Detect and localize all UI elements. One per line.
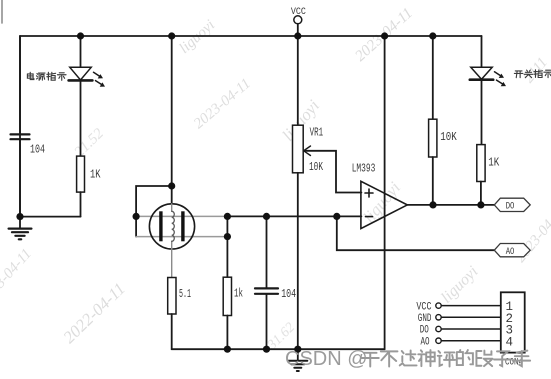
label 电源指示 [27, 72, 66, 80]
svg-text:10K: 10K [309, 161, 323, 174]
resistor R 10K pullup [429, 36, 437, 205]
svg-text:GND: GND [418, 313, 432, 325]
resistor R1 1K [77, 156, 85, 217]
capacitor C2 104 [255, 216, 278, 349]
watermark chinese 干不过神评的段子手 [362, 350, 530, 366]
resistor R 5.1 [168, 249, 176, 349]
wire sensor right link [226, 216, 228, 236]
wire sensor top-left link [136, 186, 172, 237]
svg-text:CON4: CON4 [505, 357, 523, 369]
wire sensor electrode grey top [136, 215, 227, 217]
potentiometer VR1 [293, 36, 362, 349]
label 开关指示 [514, 70, 551, 78]
svg-text:AO: AO [421, 336, 430, 348]
wire top rail [20, 35, 482, 37]
svg-text:1K: 1K [90, 169, 101, 182]
op-amp U1 LM393 [361, 181, 407, 228]
VCC terminal [294, 16, 302, 36]
svg-text:104: 104 [281, 288, 296, 301]
svg-text:AO: AO [506, 246, 515, 258]
connector pin circles [436, 303, 441, 344]
LED D2 switch indicator [470, 36, 506, 145]
svg-text:DO: DO [506, 201, 515, 213]
grey screenshot border remnant top-left [1, 0, 3, 23]
wire VCC to sensor heater [171, 36, 173, 186]
sensor MQ circle [149, 186, 194, 249]
connector pin wires [441, 306, 501, 341]
net tag DO [494, 198, 530, 212]
svg-text:4: 4 [506, 335, 514, 349]
heater coil [172, 211, 175, 241]
wire minus input net [227, 215, 361, 217]
connector CON4 [501, 292, 525, 352]
electrode bars [159, 211, 162, 241]
wire AO branch [337, 216, 494, 250]
capacitor C1 104 [11, 36, 30, 217]
wire bottom rail [172, 348, 385, 350]
ground GND1 [9, 217, 32, 240]
svg-text:CSDN @: CSDN @ [285, 348, 368, 370]
node dots [16, 32, 484, 352]
resistor R 1k [223, 237, 231, 350]
wire sensor electrode grey bottom [136, 236, 227, 238]
svg-text:VCC: VCC [291, 6, 306, 18]
wire bottom-left [20, 216, 81, 218]
svg-text:5.1: 5.1 [179, 288, 191, 301]
svg-text:LM393: LM393 [352, 163, 376, 176]
svg-text:VCC: VCC [416, 301, 431, 313]
ground GND2 [288, 349, 307, 371]
svg-text:DO: DO [420, 325, 429, 337]
LED D1 power indicator [69, 36, 105, 156]
svg-text:1k: 1k [234, 288, 243, 301]
wire left vertical [19, 36, 21, 217]
svg-text:VR1: VR1 [310, 127, 324, 140]
wire VCC-GND stem x385 [384, 36, 386, 349]
resistor R 1K led [477, 145, 485, 205]
net tag AO [494, 244, 530, 258]
wire comparator output [407, 204, 494, 206]
svg-text:1K: 1K [488, 157, 499, 170]
svg-text:10K: 10K [440, 131, 457, 144]
svg-text:104: 104 [30, 144, 45, 157]
